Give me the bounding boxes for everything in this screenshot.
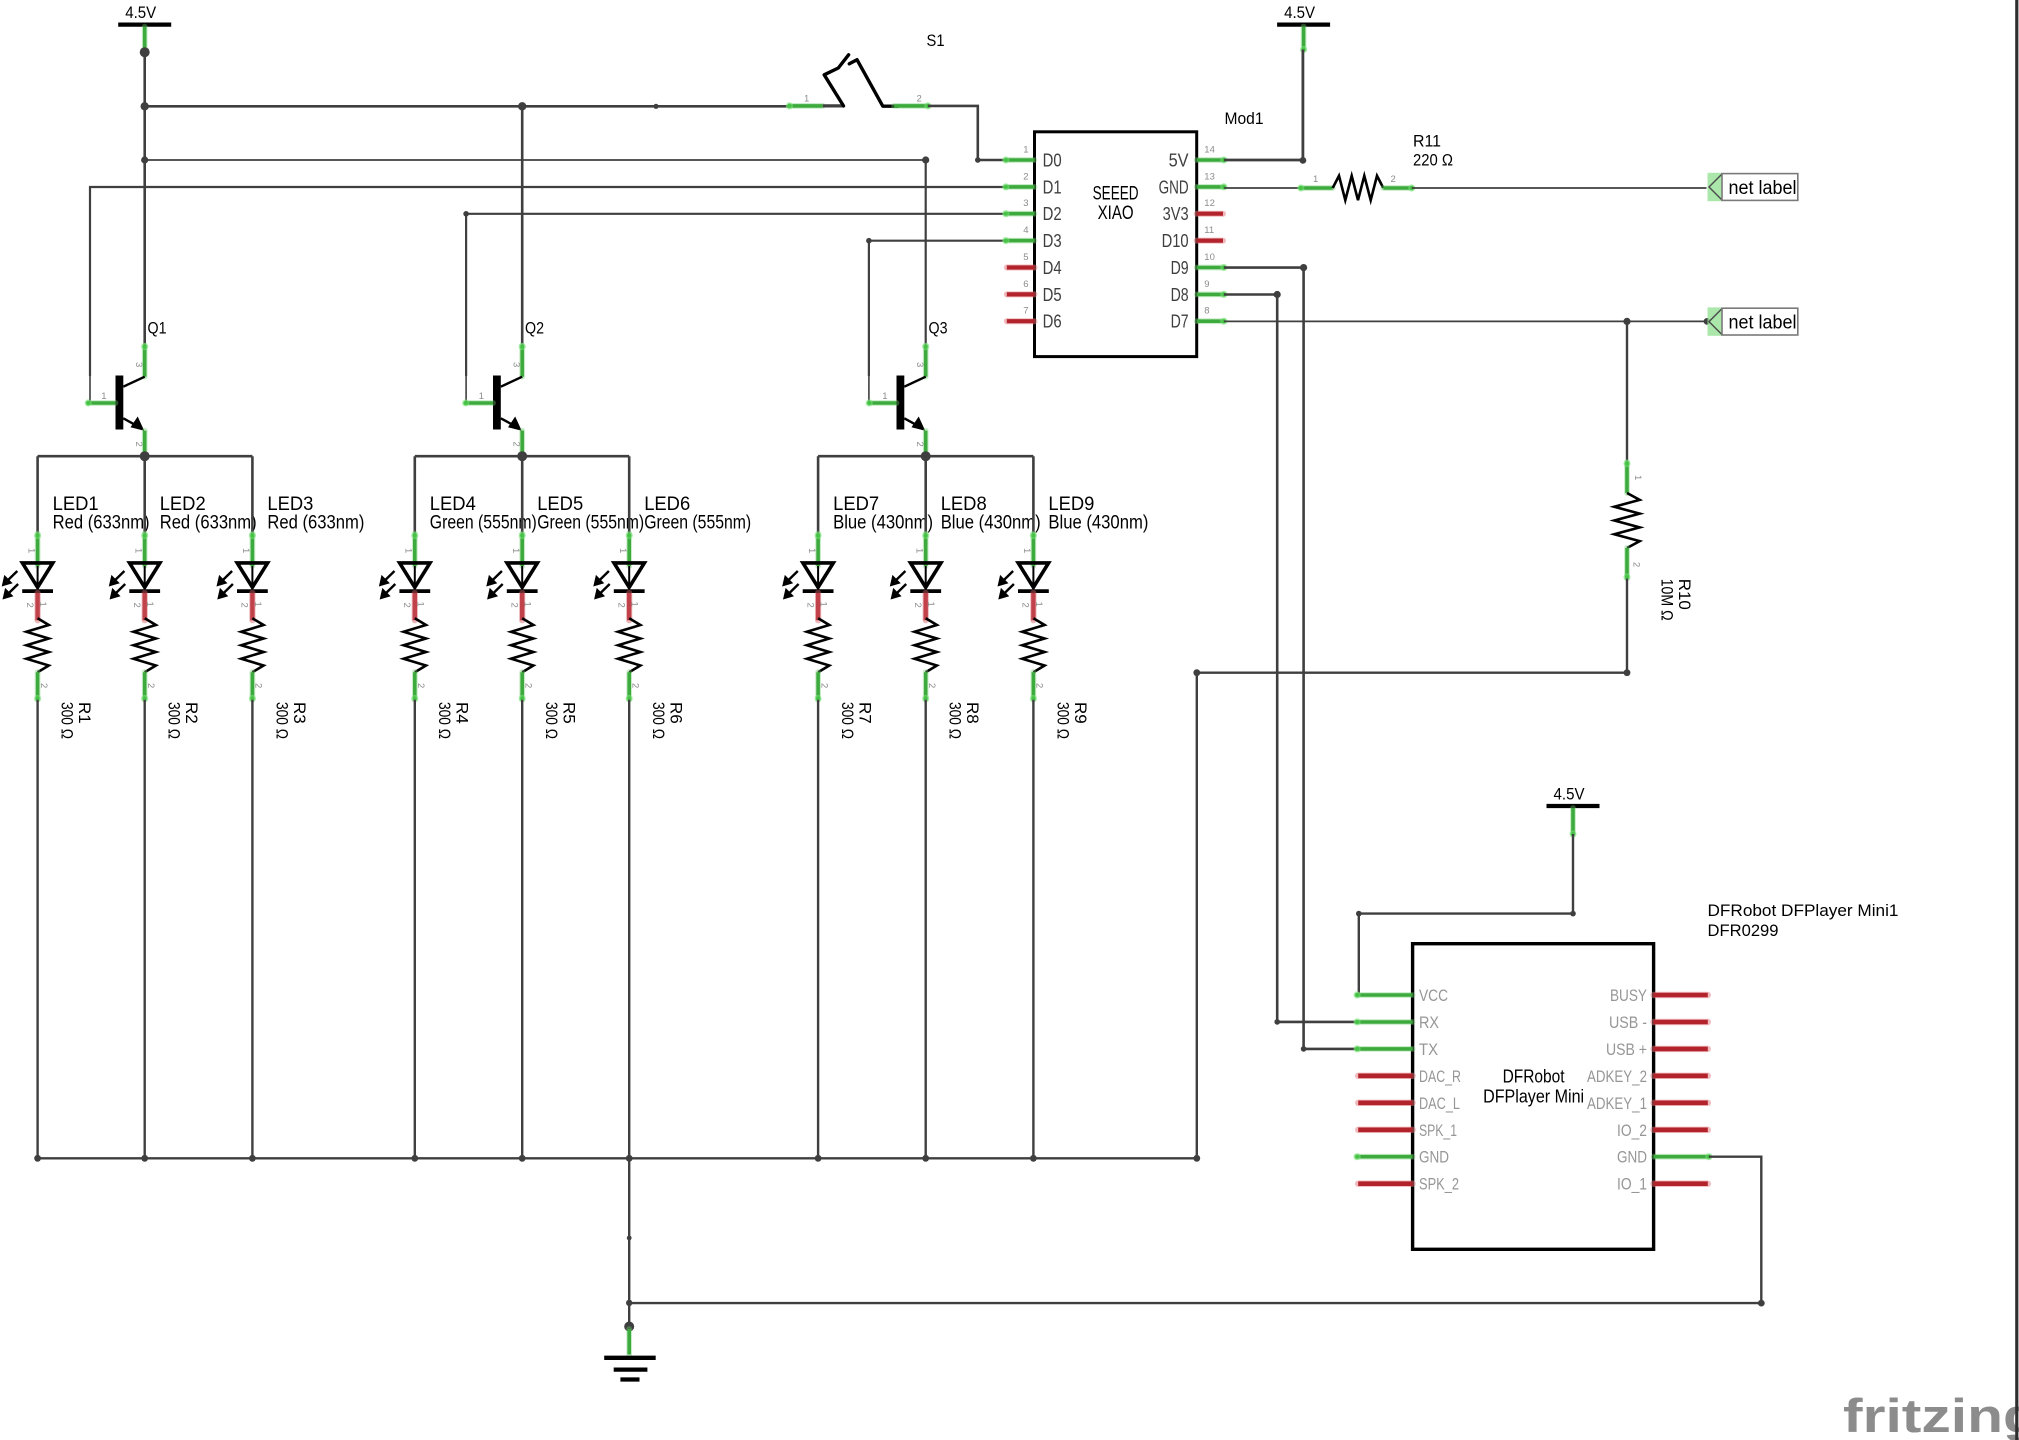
svg-text:1: 1 [414,602,425,607]
svg-text:4.5V: 4.5V [1284,4,1315,22]
svg-text:2: 2 [24,603,35,608]
XIAO pin 1 D0 [1002,145,1061,171]
svg-text:1: 1 [806,548,817,553]
svg-text:SPK_1: SPK_1 [1419,1121,1457,1140]
svg-text:2: 2 [914,442,925,447]
wire R9 to ground bus [1032,700,1034,1159]
svg-text:1: 1 [133,548,144,553]
svg-text:GND: GND [1617,1148,1647,1167]
XIAO pin 5 D4 [1007,252,1062,278]
XIAO pin 4 D3 [1002,225,1061,251]
svg-text:R5: R5 [560,702,579,724]
wire 4.5V vertical rail to Q1 collector [143,52,146,345]
svg-text:net label: net label [1729,178,1797,199]
svg-text:2: 2 [615,603,626,608]
svg-text:300 Ω: 300 Ω [542,702,561,739]
svg-text:1: 1 [252,602,263,607]
LED LED8 Blue (430nm) [891,494,1040,620]
DFPlayer pin GND (right) [1617,1148,1713,1167]
junction node below top-left 4.5V [140,47,150,57]
DFPlayer pin BUSY (right) [1610,986,1708,1005]
svg-text:1: 1 [510,548,521,553]
svg-text:1: 1 [144,602,155,607]
svg-text:300 Ω: 300 Ω [435,702,454,739]
corner RX wire [1274,1019,1280,1025]
junction D7 wire / R10 [1623,318,1630,325]
svg-text:D7: D7 [1171,312,1189,332]
svg-text:1: 1 [522,602,533,607]
svg-text:1: 1 [617,548,628,553]
junction top bus / Q2 collector drop [518,102,526,110]
junction ground bus x=629 [626,1155,633,1162]
svg-text:1: 1 [818,602,829,607]
svg-text:3: 3 [133,362,144,367]
svg-text:USB +: USB + [1606,1040,1647,1059]
wire anode bus drop to LED1 [36,456,39,534]
svg-text:1: 1 [37,602,48,607]
XIAO pin 6 D5 [1007,279,1062,305]
junction Q2 emitter / bus 2 [517,451,527,461]
XIAO pin 10 D9 [1171,252,1228,278]
svg-text:fritzing: fritzing [1843,1389,2019,1440]
wire top bus drop to Q2 collector [521,106,524,345]
DFPlayer pin IO_1 (right) [1617,1175,1708,1194]
wire LED anode bus group 1 [38,455,253,458]
XIAO pin 14 5V [1169,145,1228,171]
corner VCC wire a [1570,911,1576,917]
svg-text:R6: R6 [667,702,686,724]
svg-text:4.5V: 4.5V [125,4,156,22]
svg-text:Blue (430nm): Blue (430nm) [1048,513,1148,534]
DFPlayer pin GND (left) [1354,1148,1450,1167]
svg-text:USB -: USB - [1609,1013,1647,1032]
svg-text:1: 1 [1632,475,1643,480]
svg-text:R3: R3 [290,702,309,724]
resistor R11 220 ohm [1297,132,1453,201]
svg-text:1: 1 [240,548,251,553]
junction lower bus / Q3 collector drop [922,156,929,163]
transistor Q3 [866,319,948,456]
wire bendpoint D3 bus [866,238,872,244]
svg-text:300 Ω: 300 Ω [272,702,291,739]
junction Q1 emitter / bus 1 [140,451,150,461]
transistor Q2 [462,319,544,456]
wire ground bus [38,1157,1197,1159]
wire R1 to ground bus [36,700,38,1159]
svg-text:Green (555nm): Green (555nm) [644,513,751,534]
svg-text:2: 2 [511,442,522,447]
svg-text:2: 2 [912,603,923,608]
XIAO pin 11 D10 [1162,225,1223,251]
wire bendpoint S1-D0 [975,157,981,163]
wire R3 to ground bus [251,700,253,1159]
label SEEED XIAO [1093,183,1139,225]
svg-text:2: 2 [1023,171,1028,182]
svg-text:2: 2 [508,603,519,608]
wire R10 to ground bus [1197,579,1627,1159]
wire R7 to ground bus [817,700,819,1159]
XIAO pin 8 D7 [1171,306,1228,332]
wire 4.5V lower bus to Q3 collector drop [145,159,926,161]
svg-text:5: 5 [1023,252,1028,263]
ground symbol [604,1329,656,1380]
svg-text:R8: R8 [963,702,982,724]
corner R10 wire a [1624,669,1631,676]
corner D8 wire [1274,291,1281,298]
svg-text:R4: R4 [452,702,471,724]
svg-text:Q2: Q2 [525,319,544,338]
svg-text:7: 7 [1023,306,1028,317]
net label (GND net) [1708,173,1798,201]
resistor R8 300 ohm [915,618,983,739]
svg-text:D1: D1 [1043,177,1062,197]
svg-text:2: 2 [239,603,250,608]
svg-text:D2: D2 [1043,204,1062,224]
svg-text:2: 2 [401,603,412,608]
svg-text:D9: D9 [1171,258,1189,278]
junction ground bus x=252 [249,1155,256,1162]
svg-text:2: 2 [145,683,156,688]
DFPlayer pin USB - (right) [1609,1013,1708,1032]
power symbol 4.5V (above DFPlayer) [1547,786,1600,838]
svg-text:1: 1 [25,548,36,553]
wire anode bus drop to LED3 [251,456,254,534]
power symbol 4.5V (top right) [1277,4,1330,53]
svg-text:2: 2 [131,603,142,608]
svg-text:12: 12 [1204,198,1215,209]
junction ground bus x=38 [34,1155,41,1162]
wire R4 to ground bus [414,700,416,1159]
wire joint on top bus [653,104,658,109]
junction Q3 emitter / bus 3 [921,451,931,461]
svg-text:DFPlayer Mini: DFPlayer Mini [1483,1087,1584,1107]
svg-text:S1: S1 [927,31,945,50]
resistor R4 300 ohm [404,618,472,739]
svg-text:2: 2 [926,683,937,688]
DFPlayer pin VCC (left) [1354,986,1449,1005]
svg-text:2: 2 [804,603,815,608]
wire anode bus drop to LED5 [521,456,524,534]
DFPlayer pin ADKEY_2 (right) [1587,1067,1708,1086]
svg-text:1: 1 [882,391,887,402]
svg-text:1: 1 [479,391,484,402]
svg-text:Green (555nm): Green (555nm) [430,513,537,534]
svg-text:220 Ω: 220 Ω [1413,151,1453,170]
junction ground bus x=522 [519,1155,526,1162]
svg-text:14: 14 [1204,145,1215,156]
DFPlayer pin SPK_1 (left) [1358,1121,1457,1140]
wire thin Q3 base link [868,376,870,403]
svg-text:300 Ω: 300 Ω [58,702,77,739]
svg-text:GND: GND [1419,1148,1449,1167]
wire R6 to ground bus [628,700,630,1159]
svg-text:3: 3 [914,362,925,367]
svg-text:1: 1 [1021,548,1032,553]
wire anode bus drop to LED9 [1032,456,1035,534]
corner D9 wire [1300,264,1307,271]
LED LED5 Green (555nm) [488,494,644,620]
wire lower bus drop to Q3 collector [925,160,927,346]
svg-text:D8: D8 [1171,285,1189,305]
svg-text:IO_2: IO_2 [1617,1121,1647,1140]
DFPlayer pin USB + (right) [1606,1040,1708,1059]
corner R10 wire b [1193,669,1200,676]
corner 5V wire [1300,157,1307,164]
junction at ground symbol [624,1322,634,1332]
svg-text:RX: RX [1419,1013,1439,1032]
svg-text:ADKEY_2: ADKEY_2 [1587,1067,1647,1086]
svg-text:Red (633nm): Red (633nm) [53,513,150,534]
wire R5 to ground bus [521,700,523,1159]
svg-text:R11: R11 [1413,132,1441,151]
resistor R6 300 ohm [618,618,686,739]
resistor R10 10M ohm [1614,460,1694,621]
svg-text:10M Ω: 10M Ω [1658,579,1677,621]
wire LED anode bus group 3 [818,455,1033,458]
svg-text:2: 2 [629,683,640,688]
svg-text:4: 4 [1023,225,1028,236]
DFPlayer pin IO_2 (right) [1617,1121,1708,1140]
XIAO pin 2 D1 [1002,171,1061,197]
svg-text:Q3: Q3 [929,319,948,338]
wire anode bus drop to LED6 [628,456,631,534]
LED LED6 Green (555nm) [595,494,751,620]
svg-text:300 Ω: 300 Ω [838,702,857,739]
label Mod1 [1225,109,1264,128]
svg-text:8: 8 [1204,306,1209,317]
corner TX wire [1301,1046,1307,1052]
resistor R2 300 ohm [134,618,202,739]
wire anode bus drop to LED2 [143,456,146,534]
DFPlayer pin DAC_R (left) [1358,1067,1461,1086]
svg-text:300 Ω: 300 Ω [649,702,668,739]
svg-text:4.5V: 4.5V [1554,786,1585,804]
LED LED9 Blue (430nm) [999,494,1148,620]
wire bendpoint D2 bus [463,211,469,217]
svg-text:R10: R10 [1675,579,1694,610]
wire LED anode bus group 2 [415,455,629,458]
svg-text:2: 2 [1020,603,1031,608]
svg-text:300 Ω: 300 Ω [1053,702,1072,739]
svg-text:1: 1 [1313,174,1318,185]
svg-text:300 Ω: 300 Ω [165,702,184,739]
resistor R9 300 ohm [1022,618,1090,739]
svg-text:9: 9 [1204,279,1209,290]
svg-text:DAC_L: DAC_L [1419,1094,1460,1113]
label DFRobot DFPlayer Mini1 DFR0299 [1708,901,1899,940]
wire R11 to net label 1 [1412,187,1707,189]
wire R2 to ground bus [143,700,145,1159]
svg-text:11: 11 [1204,225,1214,236]
svg-text:2: 2 [253,683,264,688]
XIAO pin 3 D2 [1002,198,1061,224]
svg-text:net label: net label [1729,312,1797,333]
svg-text:300 Ω: 300 Ω [946,702,965,739]
transistor Q1 [85,319,167,456]
svg-text:TX: TX [1419,1040,1438,1059]
svg-text:D10: D10 [1162,231,1189,251]
svg-text:D4: D4 [1043,258,1062,278]
svg-text:3V3: 3V3 [1163,204,1189,224]
corner VCC wire b [1356,911,1362,917]
wire R8 to ground bus [925,700,927,1159]
svg-text:IO_1: IO_1 [1617,1175,1647,1194]
wire D3 bus to Q3 base [869,241,1006,376]
svg-text:5V: 5V [1169,151,1189,171]
svg-text:Mod1: Mod1 [1225,109,1264,128]
svg-text:BUSY: BUSY [1610,986,1647,1005]
DFPlayer pin DAC_L (left) [1358,1094,1460,1113]
XIAO pin 12 3V3 [1163,198,1223,224]
net label (D7 net) [1708,307,1798,335]
svg-text:2: 2 [415,683,426,688]
svg-text:1: 1 [403,548,414,553]
svg-text:Red (633nm): Red (633nm) [267,513,364,534]
svg-text:1: 1 [914,548,925,553]
corner ground bus / R10 drop [1193,1155,1200,1162]
DFPlayer pin TX (left) [1354,1040,1439,1059]
svg-text:13: 13 [1204,171,1215,182]
svg-text:2: 2 [133,442,144,447]
resistor R3 300 ohm [241,618,309,739]
wire XIAO GND to R11 [1224,187,1301,189]
svg-text:Q1: Q1 [148,319,167,338]
junction ground bus x=415 [411,1155,418,1162]
label DFRobot DFPlayer Mini (center) [1483,1067,1584,1107]
wire XIAO 5V to 4.5V [1224,50,1303,161]
junction 4.5V rail / top bus [141,102,149,110]
svg-text:3: 3 [511,362,522,367]
XIAO pin 7 D6 [1007,306,1062,332]
svg-text:D6: D6 [1043,312,1062,332]
svg-text:Red (633nm): Red (633nm) [160,513,257,534]
XIAO pin 9 D8 [1171,279,1228,305]
svg-text:2: 2 [1631,562,1642,567]
svg-text:3: 3 [1023,198,1028,209]
wire thin Q1 base link [89,376,91,403]
svg-text:GND: GND [1159,177,1189,197]
XIAO pin 13 GND [1159,171,1228,197]
wire XIAO D7 to net label 2 [1224,320,1707,322]
svg-text:D5: D5 [1043,285,1062,305]
resistor R5 300 ohm [511,618,579,739]
wire S1 pin2 to D0 [928,106,1006,160]
svg-text:XIAO: XIAO [1098,202,1134,224]
DFPlayer pin SPK_2 (left) [1358,1175,1459,1194]
svg-text:D0: D0 [1043,151,1062,171]
fritzing watermark [1843,1389,2019,1440]
resistor R1 300 ohm [26,618,94,739]
wire anode bus drop to LED8 [924,456,927,534]
svg-text:DFR0299: DFR0299 [1708,921,1779,940]
svg-text:ADKEY_1: ADKEY_1 [1587,1094,1647,1113]
junction 4.5V rail / lower bus [141,156,148,163]
svg-text:1: 1 [1033,602,1044,607]
svg-text:R2: R2 [182,702,201,724]
svg-text:2: 2 [1391,174,1396,185]
svg-text:2: 2 [917,94,922,105]
wire DFPlayer GND to ground line [629,1157,1761,1303]
wire XIAO D8 to DFPlayer RX [1224,295,1357,1022]
IC Mod1 SEEED XIAO body [1035,132,1197,357]
svg-text:1: 1 [925,602,936,607]
junction ground bus x=818 [815,1155,822,1162]
LED LED7 Blue (430nm) [784,494,933,620]
svg-text:Blue (430nm): Blue (430nm) [833,513,933,534]
corner DFPlayer GND wire [1758,1300,1765,1307]
svg-text:6: 6 [1023,279,1028,290]
LED LED3 Red (633nm) [218,494,364,620]
wire D1 bus to Q1 base [90,187,1006,376]
wire XIAO D9 to DFPlayer TX [1224,268,1357,1049]
svg-text:DAC_R: DAC_R [1419,1067,1461,1086]
wire 4.5V to DFPlayer VCC [1359,834,1573,995]
junction at net label 2 tip [1704,318,1711,325]
svg-text:SPK_2: SPK_2 [1419,1175,1459,1194]
wire D7 to R10 [1626,321,1628,462]
wire anode bus drop to LED4 [413,456,416,534]
svg-text:DFRobot: DFRobot [1503,1067,1565,1087]
svg-text:10: 10 [1204,252,1215,263]
svg-text:DFRobot DFPlayer Mini1: DFRobot DFPlayer Mini1 [1708,901,1899,920]
wire D2 bus to Q2 base [466,214,1006,376]
svg-text:VCC: VCC [1419,986,1448,1005]
DFPlayer pin RX (left) [1354,1013,1440,1032]
resistor R7 300 ohm [807,618,875,739]
junction ground bus x=145 [141,1155,148,1162]
IC DFRobot DFPlayer Mini body [1413,944,1654,1250]
svg-text:2: 2 [38,683,49,688]
svg-text:1: 1 [1023,145,1028,156]
wire thin Q2 base link [465,376,467,403]
LED LED1 Red (633nm) [3,494,149,620]
svg-text:1: 1 [629,602,640,607]
wire anode bus drop to LED7 [817,456,820,534]
switch S1 [786,31,945,110]
wire ground bus to ground symbol [626,1158,632,1326]
svg-text:2: 2 [1034,683,1045,688]
LED LED2 Red (633nm) [110,494,256,620]
power symbol 4.5V (top left) [118,4,171,48]
svg-text:D3: D3 [1043,231,1062,251]
svg-text:2: 2 [522,683,533,688]
svg-text:2: 2 [818,683,829,688]
svg-text:1: 1 [804,94,809,105]
LED LED4 Green (555nm) [381,494,537,620]
svg-text:R7: R7 [856,702,875,724]
junction ground bus x=926 [922,1155,929,1162]
wire 4.5V top bus to S1 pin 1 [145,105,790,108]
svg-text:R9: R9 [1071,702,1090,724]
svg-text:Blue (430nm): Blue (430nm) [941,513,1041,534]
junction ground bus x=1033 [1030,1155,1037,1162]
DFPlayer pin ADKEY_1 (right) [1587,1094,1708,1113]
svg-text:R1: R1 [75,702,94,724]
svg-text:1: 1 [101,391,106,402]
page right border [2015,0,2018,1440]
